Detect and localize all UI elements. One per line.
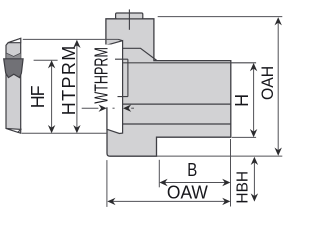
dim: baseline [22, 132, 107, 134]
blade bottom white facet [6, 128, 21, 132]
svg-text:WTHPRM: WTHPRM [90, 47, 111, 104]
svg-text:HTPRM: HTPRM [59, 46, 79, 116]
dim HBH [251, 157, 258, 202]
insert medium section [6, 53, 20, 59]
dim H [250, 63, 257, 137]
blade tip white facet [8, 38, 21, 42]
rail top internal line [122, 62, 256, 64]
apex line end step [118, 39, 122, 40]
svg-text:B: B [187, 160, 197, 180]
bar internal line 1 [122, 103, 230, 105]
svg-text:HF: HF [28, 85, 48, 108]
dim OAW [107, 198, 230, 205]
pocket lines [115, 59, 128, 96]
dim: apex extension line [23, 38, 119, 40]
clamp dark [4, 59, 23, 78]
screw on top [116, 13, 143, 19]
svg-text:HBH: HBH [235, 171, 252, 204]
dim WTHPRM [82, 105, 134, 112]
WTHPRM white label box [88, 45, 115, 108]
dim B [159, 179, 230, 186]
dim: OAH top line [158, 16, 283, 18]
dim: HF top tick [34, 59, 58, 61]
clamp bottom line [122, 48, 157, 60]
insert V line [6, 53, 20, 56]
dim OAH [275, 17, 282, 156]
screw center line [128, 9, 130, 29]
body main block [106, 19, 231, 156]
dim: H bottom tick [232, 136, 256, 138]
dim OAW ext left [106, 160, 108, 207]
dim B/OAW ext right [230, 139, 232, 207]
dim HTPRM [73, 40, 80, 133]
svg-text:OAW: OAW [167, 181, 208, 202]
bar internal line 2 [122, 123, 230, 125]
dim HF [48, 60, 55, 133]
svg-text:OAH: OAH [258, 66, 277, 100]
svg-text:H: H [232, 94, 252, 107]
blade shank [6, 38, 21, 133]
dim B ext left [158, 160, 160, 188]
blade slot (white) [107, 41, 123, 134]
dim: bottom line right [157, 155, 283, 157]
